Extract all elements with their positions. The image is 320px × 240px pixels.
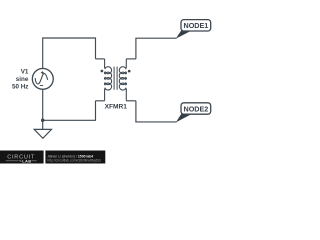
junction dot ground net bbox=[41, 119, 45, 123]
V1 minus sign bbox=[40, 85, 43, 87]
svg-text:sine: sine bbox=[16, 76, 29, 83]
V1 sine squiggle bbox=[35, 73, 47, 84]
transformer XFMR1 secondary top jog bbox=[126, 58, 136, 60]
label V1 value lines bbox=[12, 69, 29, 91]
transformer XFMR1 primary bottom jog bbox=[96, 100, 105, 102]
svg-text:NODE1: NODE1 bbox=[184, 21, 209, 30]
wire secondary bottom to NODE2 bbox=[136, 101, 177, 122]
transformer XFMR1 core lines bbox=[114, 67, 117, 90]
wire ground net horizontal bbox=[43, 101, 96, 121]
ground symbol bbox=[34, 129, 51, 138]
svg-text:NODE2: NODE2 bbox=[184, 104, 209, 113]
svg-text:http://circuitlab.com/c8b3tlrw: http://circuitlab.com/c8b3tlrw8bp62s bbox=[47, 159, 101, 163]
transformer XFMR1 secondary bottom jog bbox=[126, 100, 136, 102]
svg-text:50 Hz: 50 Hz bbox=[12, 84, 28, 91]
transformer phase dot primary bbox=[101, 70, 104, 73]
node NODE2 flag bbox=[176, 103, 211, 122]
transformer XFMR1 primary coil bbox=[104, 59, 111, 101]
wire secondary top to NODE1 bbox=[136, 38, 177, 59]
watermark text box bbox=[45, 151, 105, 164]
transformer XFMR1 secondary coil bbox=[119, 59, 126, 101]
transformer phase dot secondary bbox=[128, 70, 131, 73]
voltage source V1 circle bbox=[32, 68, 53, 89]
node NODE1 flag bbox=[176, 20, 211, 39]
V1 plus sign bbox=[41, 71, 44, 74]
transformer XFMR1 primary top jog bbox=[96, 58, 105, 60]
wire primary bottom bbox=[42, 90, 44, 129]
svg-text:XFMR1: XFMR1 bbox=[105, 104, 128, 111]
wire primary top bbox=[43, 38, 96, 69]
watermark logo box bbox=[0, 151, 44, 164]
svg-text:V1: V1 bbox=[21, 69, 29, 76]
svg-text:LAB: LAB bbox=[22, 158, 31, 163]
svg-text:Jiahan Li (sheldor) / 1500 lab: Jiahan Li (sheldor) / 1500 lab4 bbox=[47, 154, 93, 158]
